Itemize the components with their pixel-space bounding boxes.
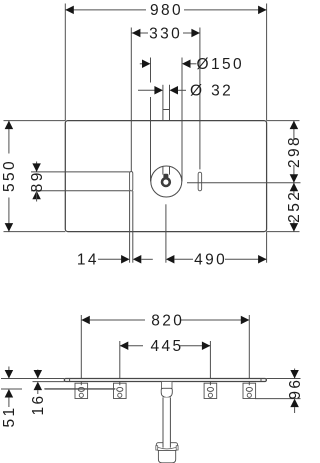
- dimension 16: [30, 370, 47, 416]
- svg-text:89: 89: [29, 170, 46, 192]
- svg-text:252: 252: [286, 190, 303, 223]
- dimension 820: [81, 312, 249, 385]
- dimension 89: [29, 162, 46, 202]
- dimension 96 right: [255, 369, 304, 414]
- dimension 445: [120, 338, 211, 385]
- drain collar: [162, 382, 173, 389]
- extension line 51 bottom: [1, 388, 22, 390]
- svg-text:490: 490: [194, 252, 227, 269]
- towel bar front view: [45, 388, 115, 390]
- svg-text:298: 298: [286, 135, 303, 168]
- console slab front view: [64, 379, 266, 382]
- dimension Ø150 leader: [140, 56, 244, 181]
- basin circle Ø150: [151, 166, 182, 197]
- dimension 252 right: [267, 183, 304, 232]
- drain nub: [163, 174, 168, 178]
- svg-text:96: 96: [287, 378, 304, 400]
- Ø32 tangent lines inside circle: [163, 166, 170, 174]
- towel bar lines / 89 extension lines: [31, 172, 130, 191]
- right mounting slot: [198, 172, 202, 191]
- dimension 14: [77, 252, 153, 269]
- svg-text:550: 550: [1, 159, 18, 192]
- bracket 2: [114, 383, 127, 398]
- svg-text:14: 14: [77, 252, 99, 269]
- svg-text:Ø150: Ø150: [197, 56, 245, 73]
- dimension 51: [1, 367, 18, 428]
- svg-text:980: 980: [150, 2, 183, 19]
- extension line slab top left: [1, 378, 64, 380]
- svg-text:51: 51: [1, 405, 18, 427]
- dimension 298 right: [267, 121, 304, 183]
- drain nut: [161, 388, 172, 397]
- trap flange: [156, 443, 177, 451]
- dimension 330: [131, 25, 200, 171]
- trap body: [158, 450, 175, 462]
- bracket 3: [204, 383, 217, 398]
- left mounting slot: [130, 172, 133, 191]
- slot edge extension lines for 14: [130, 191, 133, 263]
- svg-text:16: 16: [30, 393, 47, 415]
- bracket 4: [243, 383, 256, 398]
- svg-text:445: 445: [150, 338, 183, 355]
- svg-text:820: 820: [151, 312, 184, 329]
- drain ring Ø32: [162, 178, 170, 186]
- flange side tabs: [156, 446, 178, 450]
- svg-text:Ø 32: Ø 32: [190, 83, 233, 100]
- extension line 16 bottom: [33, 381, 65, 383]
- svg-text:330: 330: [149, 25, 182, 42]
- bracket 1: [75, 383, 88, 398]
- drain pipe: [163, 397, 170, 447]
- dimension Ø32 leader: [138, 83, 233, 121]
- dimension 490: [166, 232, 267, 269]
- console plate top view: [65, 121, 266, 232]
- flange rim arc: [158, 447, 177, 449]
- extension line right middle: [187, 182, 301, 184]
- dimension 980 top: [65, 2, 266, 120]
- dimension 550 left: [1, 121, 65, 232]
- drain centerline: [165, 204, 167, 262]
